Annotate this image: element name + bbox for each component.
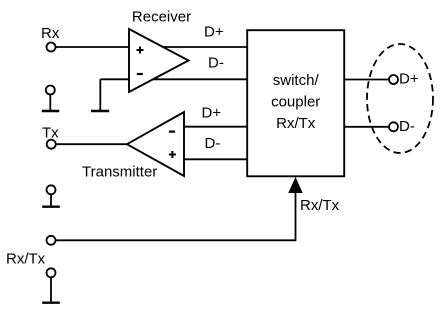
svg-text:D+: D+ xyxy=(399,71,419,88)
net label D+ (output) xyxy=(399,71,419,88)
wire Tx to transmitter output xyxy=(56,143,128,145)
dashed bus grouping ellipse xyxy=(367,44,433,153)
net label D- (transmitter) xyxy=(205,135,221,152)
net label D+ (transmitter) xyxy=(202,105,222,122)
wire Rx/Tx control to switch xyxy=(56,192,296,241)
terminal Tx xyxy=(47,140,56,149)
svg-text:D+: D+ xyxy=(202,105,222,122)
terminal Rx xyxy=(47,43,56,52)
terminal Rx/Tx control xyxy=(47,236,56,245)
terminal D+ output xyxy=(389,75,398,84)
net label D- (receiver) xyxy=(208,55,224,72)
svg-text:Receiver: Receiver xyxy=(132,9,191,26)
svg-text:Rx: Rx xyxy=(41,25,60,42)
op-amp receiver xyxy=(129,29,189,92)
wire transmitter - input D+ to switch xyxy=(184,126,247,128)
label Receiver xyxy=(132,9,191,26)
net label Rx/Tx (control at switch) xyxy=(300,197,340,214)
wire switch to D- output xyxy=(344,126,389,128)
terminal D- output xyxy=(389,122,398,131)
wire transmitter + input D- to switch xyxy=(184,158,247,160)
svg-text:Rx/Tx: Rx/Tx xyxy=(276,115,316,132)
svg-text:switch/: switch/ xyxy=(273,72,320,89)
ground post 1 (below Rx) xyxy=(42,86,60,112)
svg-text:D-: D- xyxy=(399,118,415,135)
ground post 3 (below Rx/Tx) xyxy=(42,268,60,302)
svg-text:coupler: coupler xyxy=(271,94,320,111)
svg-text:D-: D- xyxy=(205,135,221,152)
wire ground to receiver - input continuing as D- to switch xyxy=(100,79,247,110)
net label D- (output) xyxy=(399,118,415,135)
svg-text:D-: D- xyxy=(208,55,224,72)
net label D+ (receiver) xyxy=(204,24,224,41)
node Rx label xyxy=(41,25,60,42)
svg-text:Rx/Tx: Rx/Tx xyxy=(6,251,46,268)
label Transmitter xyxy=(82,164,157,181)
svg-text:Transmitter: Transmitter xyxy=(82,164,157,181)
svg-text:D+: D+ xyxy=(204,24,224,41)
node Rx/Tx label xyxy=(6,251,46,268)
svg-text:Rx/Tx: Rx/Tx xyxy=(300,197,340,214)
ground post 2 (below Tx) xyxy=(42,185,60,206)
arrow into switch (control input) xyxy=(288,177,302,193)
op-amp transmitter xyxy=(127,112,184,176)
wire Rx to receiver + input continuing as D+ to switch xyxy=(56,46,248,48)
switch/coupler block U1 xyxy=(247,30,344,176)
node Tx label xyxy=(42,125,59,142)
wire switch to D+ output xyxy=(344,79,389,81)
ground below receiver xyxy=(91,110,109,112)
